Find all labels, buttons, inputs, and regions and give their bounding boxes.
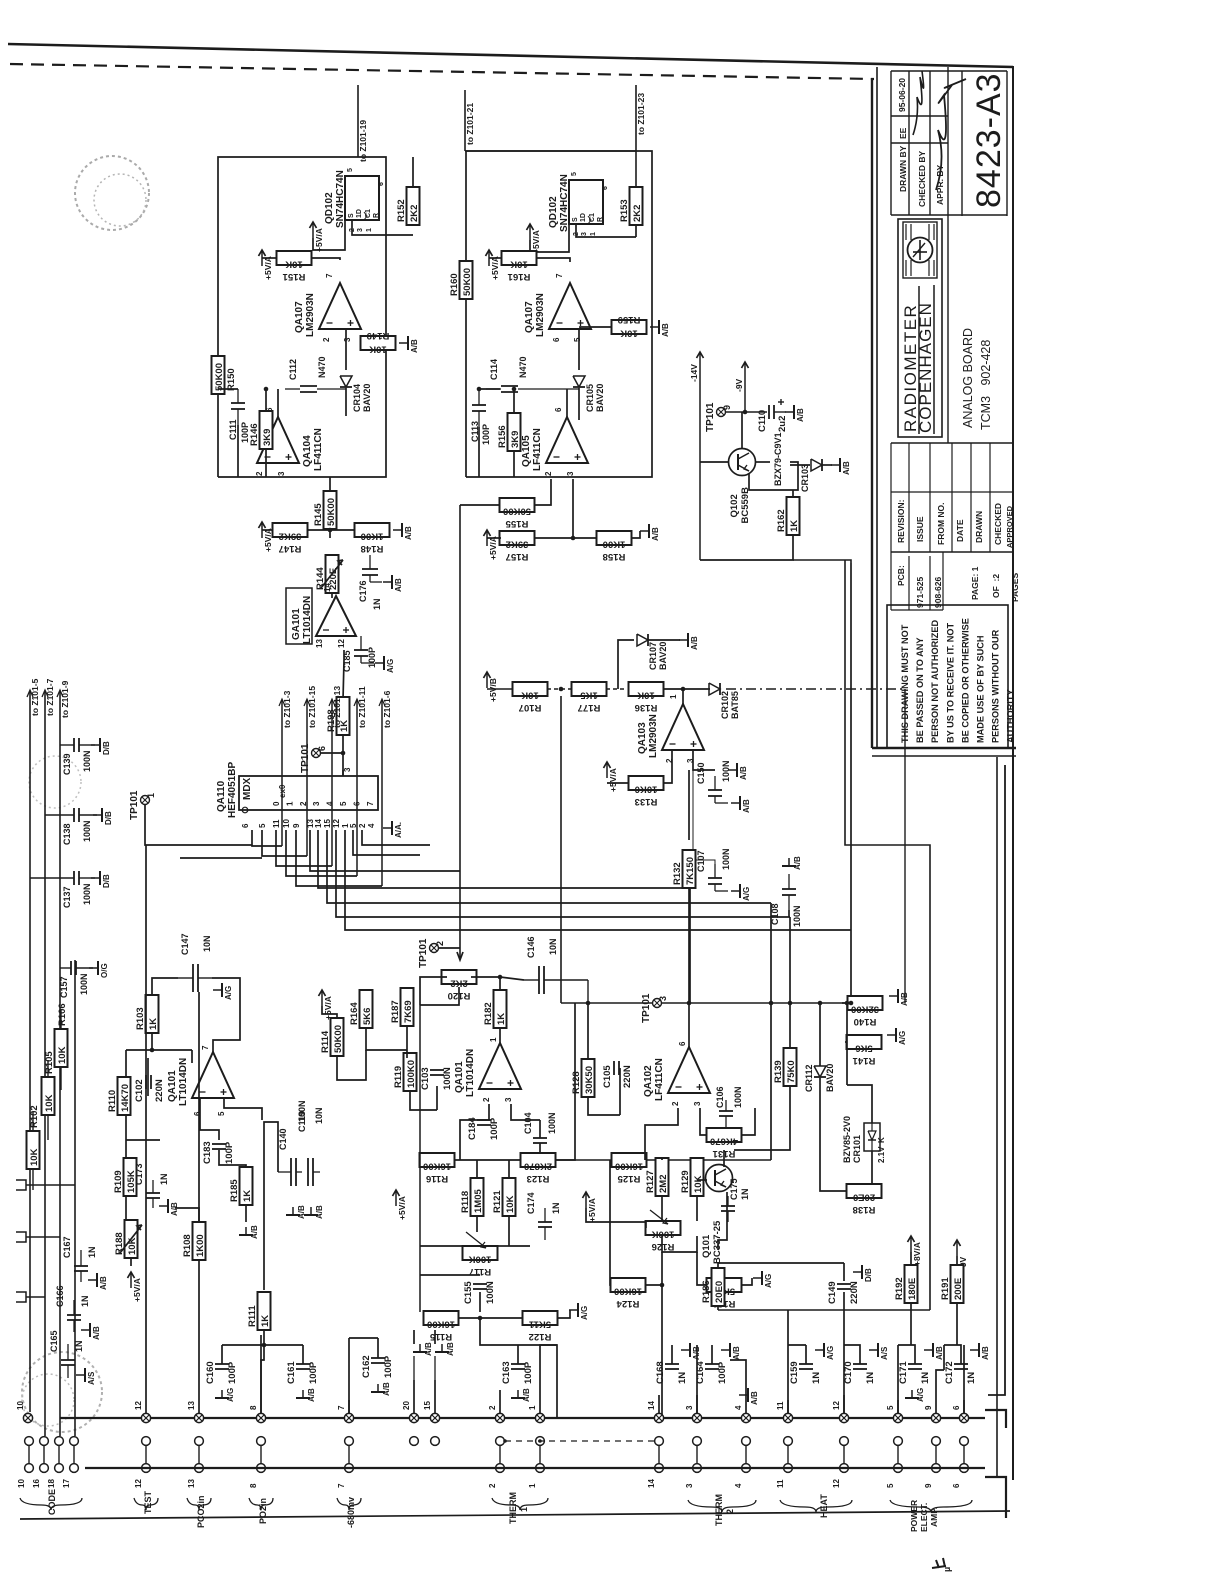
ground A/B bbox=[383, 575, 403, 592]
svg-text:to Z101-23: to Z101-23 bbox=[636, 93, 646, 135]
svg-text:100P: 100P bbox=[224, 1141, 235, 1164]
svg-text:C137: C137 bbox=[62, 886, 72, 908]
junction bbox=[818, 1001, 823, 1006]
svg-text:A/B: A/B bbox=[522, 1388, 531, 1402]
wire bbox=[508, 1216, 510, 1246]
svg-text:A/B: A/B bbox=[935, 1346, 944, 1360]
svg-text:CHECKED BY: CHECKED BY bbox=[917, 150, 927, 207]
ground A/B bbox=[889, 989, 909, 1006]
capacitor C102 bbox=[134, 1075, 165, 1102]
resistor R158 bbox=[597, 531, 632, 562]
svg-text:R160: R160 bbox=[449, 273, 460, 296]
svg-text:2: 2 bbox=[671, 1101, 680, 1106]
wire bbox=[734, 1086, 790, 1150]
svg-text:CR105: CR105 bbox=[585, 384, 595, 412]
wire jog 1 bbox=[540, 1345, 557, 1390]
svg-text:+5V/A: +5V/A bbox=[587, 1198, 597, 1222]
svg-text:to Z101-13: to Z101-13 bbox=[332, 686, 342, 728]
svg-text:R139: R139 bbox=[773, 1060, 784, 1083]
svg-text:11: 11 bbox=[272, 819, 281, 828]
wire bbox=[661, 1252, 663, 1418]
wire bbox=[700, 1108, 707, 1135]
wire bbox=[479, 388, 500, 390]
svg-text:ELECT.: ELECT. bbox=[919, 1503, 929, 1532]
svg-text:CR104: CR104 bbox=[352, 384, 362, 412]
wire bbox=[262, 529, 273, 531]
svg-text:10: 10 bbox=[16, 1401, 25, 1410]
svg-text:CR107: CR107 bbox=[648, 642, 658, 670]
svg-text:+5V/A: +5V/A bbox=[263, 528, 273, 552]
svg-text:QA101: QA101 bbox=[167, 1070, 178, 1102]
capacitor C163 bbox=[501, 1361, 534, 1384]
capacitor C114 bbox=[486, 356, 579, 392]
svg-text:A/B: A/B bbox=[170, 1202, 179, 1216]
pot arrow bbox=[466, 1232, 486, 1248]
svg-text:QA104: QA104 bbox=[302, 435, 313, 467]
capacitor C172 bbox=[944, 1361, 977, 1384]
svg-text:30K50: 30K50 bbox=[584, 1066, 595, 1094]
group POWER ELECT AMP bbox=[890, 1500, 972, 1512]
resistor R103 bbox=[135, 995, 159, 1033]
diode CR105 bbox=[573, 376, 605, 412]
wire bbox=[47, 1115, 49, 1140]
svg-text:BAV20: BAV20 bbox=[825, 1064, 835, 1092]
wire bbox=[790, 464, 810, 466]
wire bbox=[789, 1003, 791, 1048]
connector pin 4 bbox=[734, 1405, 751, 1423]
svg-text:1: 1 bbox=[146, 793, 156, 798]
svg-text:TP101: TP101 bbox=[705, 402, 716, 432]
svg-text:50K00: 50K00 bbox=[503, 506, 531, 517]
svg-text:2.1V: 2.1V bbox=[877, 1146, 886, 1163]
junction bbox=[660, 1283, 665, 1288]
svg-text:C160: C160 bbox=[205, 1361, 216, 1384]
wire bbox=[846, 1003, 848, 1085]
ground A/B bbox=[782, 856, 802, 870]
svg-text:R140: R140 bbox=[854, 1016, 877, 1027]
wire bbox=[460, 504, 501, 506]
ground A/B bbox=[728, 763, 748, 780]
wire bbox=[32, 1112, 34, 1131]
svg-text:12: 12 bbox=[832, 1479, 841, 1488]
svg-text:C140: C140 bbox=[278, 1128, 288, 1150]
wire bbox=[789, 917, 791, 1003]
connector pin 14 bbox=[647, 1401, 664, 1423]
svg-text:QA101: QA101 bbox=[454, 1061, 465, 1093]
resistor R141 bbox=[847, 1035, 882, 1066]
node to Z101-9 bbox=[57, 680, 70, 1436]
svg-text:5: 5 bbox=[217, 1111, 226, 1116]
svg-text:C175: C175 bbox=[729, 1178, 739, 1200]
wire bbox=[744, 378, 746, 412]
resistor R110 bbox=[107, 1077, 131, 1115]
svg-text:6: 6 bbox=[378, 182, 385, 186]
svg-text:5: 5 bbox=[886, 1483, 895, 1488]
svg-text:11: 11 bbox=[776, 1479, 785, 1488]
svg-text:to Z101-5: to Z101-5 bbox=[30, 678, 40, 716]
mux pin numbers bbox=[241, 819, 376, 828]
svg-text:6: 6 bbox=[678, 1041, 687, 1046]
svg-text:ANALOG BOARD: ANALOG BOARD bbox=[961, 328, 975, 428]
svg-text:LM2903N: LM2903N bbox=[305, 293, 316, 337]
resistor R102 bbox=[27, 1105, 41, 1169]
svg-text:6: 6 bbox=[602, 186, 609, 190]
svg-text:10K: 10K bbox=[127, 1237, 138, 1255]
svg-text:3K9: 3K9 bbox=[262, 429, 273, 446]
resistor R140 bbox=[848, 996, 883, 1027]
svg-text:SN74HC74N: SN74HC74N bbox=[559, 174, 570, 232]
wire bbox=[822, 464, 832, 466]
node to Z101-19 bbox=[358, 85, 368, 162]
resistor R139 bbox=[773, 1048, 797, 1086]
svg-text:1N: 1N bbox=[74, 1340, 84, 1352]
resistor R192 bbox=[894, 1265, 918, 1303]
capacitor C147 bbox=[178, 933, 212, 992]
svg-text:5: 5 bbox=[347, 168, 354, 172]
op-amp QA107 bbox=[294, 273, 361, 342]
svg-text:10N: 10N bbox=[202, 935, 212, 952]
svg-text:220N: 220N bbox=[849, 1281, 860, 1304]
svg-text:20E0: 20E0 bbox=[853, 1192, 875, 1203]
wire bbox=[26, 1184, 75, 1186]
svg-text:C107: C107 bbox=[696, 850, 706, 872]
svg-text:R126: R126 bbox=[652, 1241, 675, 1252]
svg-text:4K670: 4K670 bbox=[710, 1136, 738, 1147]
wire bbox=[843, 1263, 845, 1281]
svg-text:10K0: 10K0 bbox=[635, 784, 658, 795]
wire bbox=[645, 1108, 678, 1160]
svg-text:R109: R109 bbox=[113, 1170, 124, 1193]
svg-text:C105: C105 bbox=[602, 1065, 613, 1088]
wire bbox=[26, 1296, 45, 1298]
ground A/B bbox=[924, 1343, 944, 1360]
ground A/G bbox=[731, 884, 751, 901]
svg-text:1N: 1N bbox=[159, 1173, 169, 1185]
svg-text:MDX: MDX bbox=[242, 777, 253, 800]
svg-text:µ: µ bbox=[942, 1567, 952, 1572]
power +5V/A bbox=[319, 990, 334, 1020]
svg-text:R115: R115 bbox=[429, 1331, 452, 1342]
junction bbox=[571, 536, 576, 541]
svg-text:50K00: 50K00 bbox=[214, 363, 225, 391]
junction bbox=[687, 1001, 692, 1006]
svg-text:12: 12 bbox=[337, 639, 346, 648]
wire bbox=[910, 1302, 912, 1345]
svg-text:TP101: TP101 bbox=[300, 743, 311, 773]
svg-text:11: 11 bbox=[776, 1401, 785, 1410]
svg-text:1: 1 bbox=[528, 1405, 537, 1410]
svg-text:A/G: A/G bbox=[764, 1274, 773, 1288]
svg-text:to Z101-21: to Z101-21 bbox=[465, 103, 475, 145]
svg-text:R158: R158 bbox=[603, 551, 626, 562]
svg-text:50K00: 50K00 bbox=[326, 498, 337, 526]
wire bbox=[126, 1139, 160, 1141]
svg-text:R124: R124 bbox=[616, 1298, 639, 1309]
svg-text:+5V/A: +5V/A bbox=[263, 256, 273, 280]
wire bbox=[788, 1344, 806, 1346]
svg-text:CHECKED: CHECKED bbox=[993, 503, 1003, 545]
svg-text:R114: R114 bbox=[320, 1030, 331, 1053]
svg-text:C174: C174 bbox=[526, 1192, 536, 1214]
svg-text:+5V/A: +5V/A bbox=[314, 228, 324, 252]
wire bbox=[479, 1292, 481, 1312]
op-amp QA105 bbox=[521, 407, 588, 476]
svg-text:to Z101-3: to Z101-3 bbox=[282, 690, 292, 728]
svg-text:POWER: POWER bbox=[909, 1500, 919, 1532]
ground A/B bbox=[159, 1199, 179, 1216]
op-amp QA101 bbox=[454, 1037, 521, 1102]
wire bbox=[898, 1345, 915, 1364]
wire bbox=[696, 1196, 698, 1221]
svg-text:15: 15 bbox=[323, 819, 332, 828]
group CODE bbox=[20, 1498, 82, 1510]
svg-text:C102: C102 bbox=[134, 1079, 145, 1102]
svg-text:N470: N470 bbox=[518, 356, 528, 378]
wire bbox=[897, 1345, 899, 1418]
svg-text:13: 13 bbox=[187, 1479, 196, 1488]
ground A/G bbox=[887, 1028, 907, 1045]
resistor R153 bbox=[619, 187, 643, 225]
svg-text:O/G: O/G bbox=[100, 963, 109, 978]
wire bbox=[348, 1338, 350, 1418]
junction bbox=[586, 1001, 591, 1006]
wire bbox=[847, 1085, 872, 1123]
svg-text:3: 3 bbox=[581, 232, 588, 236]
svg-text:-680mv: -680mv bbox=[346, 1497, 356, 1528]
wire bbox=[688, 1003, 690, 1047]
wire bbox=[576, 224, 636, 237]
wire bbox=[566, 389, 568, 417]
svg-text:1M05: 1M05 bbox=[473, 1189, 484, 1213]
long vertical R177 node bbox=[560, 696, 562, 1003]
mux harness left bbox=[252, 830, 282, 846]
wire bbox=[224, 1098, 262, 1120]
wire bbox=[588, 1097, 620, 1115]
svg-text:R191: R191 bbox=[940, 1277, 951, 1300]
wire bbox=[509, 1245, 530, 1247]
svg-text:10K: 10K bbox=[57, 1046, 68, 1064]
wire bbox=[345, 330, 347, 370]
wire bbox=[460, 1104, 489, 1160]
connector pin 15 bbox=[423, 1401, 440, 1423]
capacitor C184 bbox=[467, 1117, 500, 1140]
svg-text:LF411CN: LF411CN bbox=[532, 428, 543, 471]
resistor R105 bbox=[42, 1051, 56, 1115]
ground A/B bbox=[970, 1343, 990, 1360]
power +5V/A bbox=[484, 530, 499, 560]
ground A/B bbox=[286, 1205, 306, 1219]
capacitor C137 bbox=[30, 871, 95, 908]
svg-text:C138: C138 bbox=[62, 823, 72, 845]
wire bbox=[261, 1331, 264, 1413]
svg-text:7K69: 7K69 bbox=[403, 1000, 414, 1023]
wire bbox=[700, 461, 729, 463]
resistor R119 bbox=[393, 1053, 417, 1091]
test point TP101-2 bbox=[418, 938, 445, 968]
wire bbox=[787, 1310, 789, 1418]
svg-text:A/B: A/B bbox=[394, 578, 403, 592]
node to Z101-3 bbox=[279, 690, 292, 846]
svg-text:S: S bbox=[348, 213, 355, 218]
svg-text:R192: R192 bbox=[894, 1277, 905, 1300]
connector pin 3 bbox=[685, 1405, 702, 1423]
wire bbox=[819, 1003, 821, 1066]
wire bbox=[663, 688, 710, 690]
wire bbox=[352, 220, 413, 235]
svg-text:to Z101-19: to Z101-19 bbox=[358, 120, 368, 162]
svg-text:R185: R185 bbox=[229, 1179, 240, 1202]
capacitor C103 bbox=[420, 1067, 453, 1090]
wire bbox=[697, 1179, 707, 1181]
svg-text:1K: 1K bbox=[496, 1013, 507, 1025]
svg-text:10N: 10N bbox=[314, 1107, 324, 1124]
connector pin 2 bbox=[488, 1405, 505, 1423]
wire bbox=[556, 1003, 575, 1160]
svg-text:C184: C184 bbox=[467, 1117, 478, 1140]
resistor R120 bbox=[442, 970, 477, 1001]
power +5V/B bbox=[484, 672, 499, 702]
svg-text:R149: R149 bbox=[367, 330, 390, 341]
ground D/B bbox=[853, 1265, 873, 1282]
svg-text:10K: 10K bbox=[510, 259, 528, 270]
connector pin 7 bbox=[337, 1405, 354, 1423]
svg-text:A/S: A/S bbox=[87, 1371, 96, 1385]
svg-text:A/B: A/B bbox=[732, 1346, 741, 1360]
wire bbox=[337, 1050, 366, 1080]
wire bbox=[663, 751, 672, 783]
svg-text:R150: R150 bbox=[226, 368, 237, 391]
junction bbox=[341, 751, 346, 756]
svg-text:N470: N470 bbox=[317, 356, 327, 378]
wire long to right loop bbox=[793, 560, 851, 563]
wire jog 4 bbox=[730, 1360, 746, 1385]
power -9V bbox=[734, 362, 749, 392]
wire bbox=[578, 330, 580, 370]
wire channel-2 loop bbox=[466, 151, 652, 477]
svg-text:BE PASSED ON TO ANY: BE PASSED ON TO ANY bbox=[915, 637, 925, 743]
ground A/B bbox=[785, 405, 805, 422]
svg-text:1: 1 bbox=[489, 1037, 498, 1042]
transistor Q102 bbox=[729, 449, 756, 524]
connector pin 12 bbox=[134, 1401, 151, 1423]
svg-text:1K: 1K bbox=[260, 1315, 271, 1327]
svg-text:1N: 1N bbox=[372, 598, 382, 610]
wire bbox=[508, 1160, 510, 1178]
resistor R136 bbox=[629, 682, 664, 713]
svg-text:A/B: A/B bbox=[404, 526, 413, 540]
wire bbox=[618, 640, 634, 689]
node to Z101-23 bbox=[636, 85, 646, 190]
resistor R155 bbox=[500, 498, 535, 529]
svg-text:39K2: 39K2 bbox=[506, 539, 529, 550]
title block frame bbox=[872, 66, 1016, 1480]
wire bbox=[175, 1208, 199, 1222]
ground A/B bbox=[681, 1343, 701, 1360]
svg-text:THERM: THERM bbox=[714, 1494, 724, 1526]
ground D/B bbox=[93, 808, 113, 825]
ground A/B bbox=[435, 1342, 455, 1356]
svg-text:R128: R128 bbox=[571, 1071, 582, 1094]
svg-text:6: 6 bbox=[952, 1405, 961, 1410]
resistor R115 bbox=[424, 1311, 459, 1342]
wire bbox=[459, 1317, 523, 1319]
wire bbox=[820, 1078, 847, 1191]
svg-text:R156: R156 bbox=[497, 425, 508, 448]
smudge mark bbox=[932, 1558, 946, 1568]
svg-text:A/G: A/G bbox=[224, 986, 233, 1000]
wire bbox=[419, 1160, 421, 1312]
wire bbox=[377, 1338, 379, 1358]
svg-text:R123: R123 bbox=[527, 1173, 550, 1184]
wire bbox=[312, 258, 340, 260]
svg-text:+8V/A: +8V/A bbox=[912, 1242, 922, 1266]
svg-text:1N: 1N bbox=[551, 1202, 561, 1214]
svg-text:R105: R105 bbox=[44, 1051, 55, 1074]
svg-text:PCB:: PCB: bbox=[896, 565, 906, 586]
capacitor C150 bbox=[696, 760, 731, 803]
svg-text:2: 2 bbox=[435, 941, 445, 946]
power +5V/A bbox=[128, 1272, 143, 1302]
connector pin 5 bbox=[886, 1405, 903, 1423]
svg-text:C110: C110 bbox=[757, 410, 768, 432]
svg-text:10: 10 bbox=[282, 819, 291, 828]
wire bbox=[843, 1292, 845, 1310]
svg-text:16K00: 16K00 bbox=[614, 1286, 642, 1297]
svg-text:R153: R153 bbox=[619, 199, 630, 222]
resistor R148 bbox=[355, 523, 390, 554]
junction bbox=[498, 975, 503, 980]
resistor R144 bbox=[315, 555, 343, 593]
svg-text:R188: R188 bbox=[114, 1232, 125, 1255]
wire bbox=[180, 857, 262, 859]
stamp circle bottom left bbox=[22, 1352, 102, 1432]
wire bbox=[264, 1122, 278, 1290]
capacitor C173 bbox=[134, 1163, 169, 1208]
ground D/B bbox=[91, 738, 111, 755]
resistor R125 bbox=[612, 1153, 647, 1184]
svg-text:-14V: -14V bbox=[689, 364, 699, 382]
wire bbox=[572, 479, 574, 538]
wire bbox=[699, 530, 701, 560]
svg-text:C106: C106 bbox=[715, 1086, 725, 1108]
svg-text:971-525: 971-525 bbox=[915, 577, 925, 608]
ground A/B bbox=[88, 1273, 108, 1290]
svg-text:A/B: A/B bbox=[424, 1342, 433, 1356]
capacitor C105 bbox=[602, 1061, 633, 1088]
switch contact bbox=[16, 1292, 26, 1302]
svg-text:1: 1 bbox=[528, 1483, 537, 1488]
junction bbox=[150, 1048, 155, 1053]
ground A/A. bbox=[383, 821, 403, 838]
resistor R109 bbox=[113, 1158, 137, 1196]
wire bbox=[788, 910, 790, 917]
wire bbox=[420, 977, 447, 1005]
svg-text:R127: R127 bbox=[645, 1170, 656, 1193]
power +5V/A bbox=[393, 1190, 408, 1220]
svg-text:R138: R138 bbox=[853, 1204, 876, 1215]
svg-text:C166: C166 bbox=[55, 1285, 65, 1307]
svg-text:2K2: 2K2 bbox=[632, 205, 643, 222]
svg-text:50K00: 50K00 bbox=[333, 1025, 344, 1053]
connector pin 11 bbox=[776, 1401, 793, 1423]
svg-text:R148: R148 bbox=[361, 543, 384, 554]
svg-text:BY US TO RECEIVE IT. NOT: BY US TO RECEIVE IT. NOT bbox=[945, 622, 955, 743]
power +5V/A bbox=[527, 224, 542, 254]
svg-text:BAT85: BAT85 bbox=[730, 691, 740, 719]
group -680mv bbox=[337, 1498, 361, 1510]
wire bbox=[792, 490, 794, 497]
svg-text:1: 1 bbox=[366, 228, 373, 232]
